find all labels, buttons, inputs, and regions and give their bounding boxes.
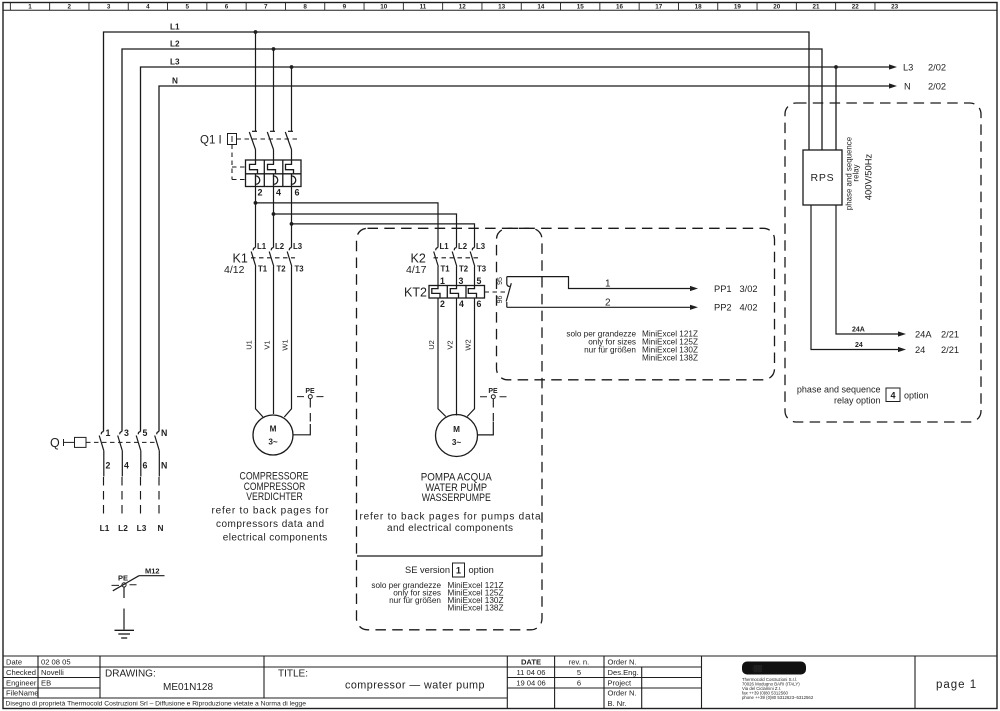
svg-text:rev. n.: rev. n.	[569, 658, 590, 667]
switch Q link dashed	[86, 441, 158, 443]
switch Q pole 1	[99, 432, 104, 517]
svg-text:T1: T1	[441, 265, 451, 274]
svg-text:4: 4	[146, 4, 150, 11]
wire L3 bus	[141, 64, 898, 431]
svg-text:6: 6	[577, 679, 581, 688]
svg-text:PE: PE	[488, 388, 498, 395]
svg-text:nur für größen: nur für größen	[389, 596, 441, 605]
svg-text:11: 11	[420, 4, 427, 11]
contactor K2 pole 3	[470, 248, 475, 267]
node 96 label	[497, 296, 504, 304]
svg-text:1: 1	[440, 276, 445, 286]
svg-text:B. Nr.: B. Nr.	[608, 699, 627, 708]
wire drop L2 to Q1	[272, 47, 276, 131]
title block drawing cell	[105, 669, 213, 694]
contactor K1 pole 2	[269, 248, 274, 267]
svg-text:Order N.: Order N.	[608, 689, 637, 698]
svg-text:T2: T2	[277, 265, 287, 274]
title block property note	[6, 700, 307, 707]
svg-text:20: 20	[773, 4, 781, 11]
svg-text:L2: L2	[458, 242, 468, 251]
switch Q terminal labels top	[106, 428, 168, 438]
svg-text:relay option: relay option	[834, 396, 881, 406]
wire drop L1 to Q1	[254, 30, 258, 131]
wire Q1 pole 3 to K1	[290, 187, 294, 248]
svg-text:PP1: PP1	[714, 284, 732, 294]
contactor K1 pole 3	[287, 248, 292, 267]
svg-text:L1: L1	[100, 523, 110, 533]
svg-text:W1: W1	[281, 339, 290, 350]
svg-text:N: N	[158, 523, 164, 533]
text phase and sequence relay option	[797, 385, 929, 406]
pump box divider line	[357, 555, 542, 557]
svg-text:DATE: DATE	[521, 658, 541, 667]
breaker Q1 pole 3 contact	[285, 131, 293, 160]
wire U1	[256, 267, 264, 418]
thermal relay KT2 pole 1 element	[432, 286, 440, 299]
svg-text:3/02: 3/02	[740, 284, 758, 294]
svg-text:02 08 05: 02 08 05	[41, 658, 71, 667]
svg-text:Project: Project	[608, 679, 633, 688]
title block title cell	[278, 669, 485, 692]
wire 1 to PP1	[507, 277, 698, 292]
svg-text:23: 23	[891, 4, 899, 11]
wire drop L3 to Q1	[290, 65, 294, 131]
svg-text:L2: L2	[118, 523, 128, 533]
thermal relay KT2 pole 3 element	[468, 286, 476, 299]
svg-text:3~: 3~	[452, 438, 462, 447]
svg-text:RPS: RPS	[811, 172, 835, 184]
svg-text:6: 6	[225, 4, 229, 11]
switch Q label	[50, 436, 60, 450]
svg-text:compressor — water pump: compressor — water pump	[345, 680, 485, 692]
svg-text:3: 3	[124, 428, 129, 438]
thermal relay KT2 terminal labels 1 3 5	[440, 276, 482, 286]
switch Q pole 4	[155, 432, 160, 517]
svg-text:17: 17	[655, 4, 663, 11]
svg-text:T1: T1	[258, 265, 268, 274]
wire U2	[438, 298, 446, 417]
svg-text:5: 5	[143, 428, 148, 438]
svg-text:L1: L1	[170, 23, 180, 32]
text 400V 50Hz vertical	[863, 153, 874, 200]
svg-text:T3: T3	[477, 265, 487, 274]
node L3 2/02 reference	[903, 63, 946, 73]
svg-text:4: 4	[276, 188, 281, 198]
wire branch to K2 pole 1	[256, 203, 439, 248]
svg-text:Q: Q	[50, 436, 60, 450]
svg-text:4: 4	[890, 391, 895, 401]
svg-text:95: 95	[497, 277, 504, 285]
svg-text:2: 2	[258, 188, 263, 198]
svg-text:6: 6	[295, 188, 300, 198]
node N 2/02 reference	[904, 82, 946, 92]
text phase and sequence relay vertical	[845, 136, 861, 210]
svg-text:electrical components: electrical components	[223, 532, 328, 543]
svg-text:KT2: KT2	[404, 286, 427, 300]
svg-text:page 1: page 1	[936, 679, 977, 691]
PE terminal compressor	[297, 388, 324, 424]
switch Q handle	[64, 437, 87, 447]
svg-text:2: 2	[68, 4, 72, 11]
wire L3 drop to RPS	[834, 65, 838, 150]
svg-text:22: 22	[852, 4, 860, 11]
contactor K2 link dashed	[434, 257, 479, 259]
thermal relay KT2 label	[404, 286, 427, 300]
svg-text:10: 10	[380, 4, 388, 11]
wire L1 bus	[104, 32, 810, 432]
node wire 2 label	[605, 297, 611, 308]
svg-text:phone ++39 (0)80 5312623–53125: phone ++39 (0)80 5312623–5312562	[742, 695, 814, 700]
overload Q1 pole 1 thermal and magnetic elements	[250, 160, 260, 187]
node wire 1 label	[605, 279, 611, 290]
svg-text:V2: V2	[446, 340, 455, 349]
svg-text:24A: 24A	[852, 327, 865, 334]
node V2 label	[446, 340, 455, 349]
overload Q1 pole 2 thermal and magnetic elements	[268, 160, 278, 187]
svg-text:compressors data and: compressors data and	[216, 519, 324, 530]
node supply L1 L2 L3 N labels	[100, 523, 164, 533]
ground symbol	[115, 630, 135, 638]
svg-text:option: option	[469, 565, 494, 575]
svg-text:4/12: 4/12	[224, 264, 245, 276]
svg-text:15: 15	[577, 4, 585, 11]
contactor K2 label	[406, 252, 427, 277]
page number	[936, 679, 977, 691]
svg-text:Disegno di proprietà Thermocol: Disegno di proprietà Thermocold Costruzi…	[6, 700, 307, 707]
node 24A 2/21 reference	[915, 330, 959, 340]
wire Q1 pole 1 to K1	[254, 187, 258, 248]
svg-text:Checked: Checked	[6, 668, 36, 677]
svg-text:4: 4	[124, 461, 129, 471]
wire W1	[284, 267, 291, 418]
node V1 label	[263, 340, 272, 349]
wire L2 bus	[122, 49, 822, 432]
svg-text:L2: L2	[170, 40, 180, 49]
wire motor M1 PE	[293, 424, 310, 435]
svg-text:Engineer: Engineer	[6, 679, 37, 688]
svg-text:T2: T2	[459, 265, 469, 274]
node 95 label	[497, 277, 504, 285]
RPS option dashed box	[785, 103, 981, 422]
motor M1 compressor	[253, 415, 293, 455]
svg-text:19: 19	[734, 4, 742, 11]
node PP1 3/02 reference	[714, 284, 758, 294]
svg-text:3~: 3~	[268, 438, 278, 447]
svg-text:6: 6	[477, 299, 482, 309]
contactor K1 pole 1	[251, 248, 256, 267]
svg-text:L2: L2	[275, 242, 285, 251]
svg-text:TITLE:: TITLE:	[278, 669, 308, 680]
svg-text:400V/50Hz: 400V/50Hz	[863, 153, 874, 200]
svg-text:8: 8	[303, 4, 307, 11]
pump option dashed box	[357, 228, 543, 630]
switch Q pole 3	[136, 432, 141, 517]
logo Thermocold	[742, 662, 806, 675]
contactor K1 link dashed	[251, 257, 295, 259]
svg-text:12: 12	[459, 4, 467, 11]
breaker Q1 pole 2 contact	[267, 131, 275, 160]
switch Q pole 2	[118, 432, 123, 517]
breaker Q1 actuator box	[228, 134, 237, 145]
svg-text:2: 2	[440, 299, 445, 309]
svg-text:ME01N128: ME01N128	[163, 682, 213, 693]
ruler scale strip	[10, 3, 898, 11]
text note MiniExcel sizes	[566, 330, 698, 363]
svg-text:11 04 06: 11 04 06	[517, 668, 546, 677]
svg-text:MiniExcel 138Z: MiniExcel 138Z	[642, 354, 698, 363]
breaker Q1 pole 1 contact	[249, 131, 257, 160]
svg-text:L3: L3	[137, 523, 147, 533]
breaker Q1 label	[200, 135, 222, 147]
aux contact KT2 95-96	[506, 277, 511, 308]
svg-text:N: N	[161, 461, 167, 471]
svg-text:14: 14	[537, 4, 545, 11]
relay RPS box	[803, 150, 842, 205]
text pump title	[421, 472, 492, 504]
svg-text:N: N	[161, 428, 167, 438]
svg-text:5: 5	[577, 668, 581, 677]
svg-text:2/02: 2/02	[928, 63, 946, 73]
svg-text:relay: relay	[852, 164, 861, 181]
svg-text:1: 1	[456, 566, 461, 576]
text compressor title	[240, 471, 309, 503]
svg-text:7: 7	[264, 4, 268, 11]
contactor K1 label	[224, 252, 248, 277]
svg-text:13: 13	[498, 4, 506, 11]
thermal relay KT2 aux link dashed	[485, 291, 506, 293]
svg-text:and electrical components: and electrical components	[387, 523, 513, 534]
title block left table text	[6, 658, 71, 698]
node PP2 4/02 reference	[714, 303, 758, 313]
svg-text:DRAWING:: DRAWING:	[105, 669, 156, 680]
svg-text:M12: M12	[145, 567, 160, 576]
thermal relay KT2 wires in	[437, 267, 439, 286]
motor M2 pump	[436, 415, 478, 457]
svg-text:24: 24	[915, 345, 925, 355]
svg-text:19 04 06: 19 04 06	[516, 679, 546, 688]
text SE version option	[405, 563, 494, 577]
node U2 label	[427, 340, 436, 350]
thermal relay KT2 pole 2 element	[450, 286, 458, 299]
svg-text:L1: L1	[257, 242, 267, 251]
contactor K2 pole 2	[452, 248, 457, 267]
MiniExcel note dashed box	[497, 228, 775, 379]
overload block Q1 outline	[246, 160, 302, 187]
svg-text:W2: W2	[464, 339, 473, 350]
node L1 label	[170, 23, 180, 32]
PE M12 earth terminal	[112, 567, 165, 591]
svg-text:24: 24	[855, 342, 863, 349]
wire 2 to PP2	[507, 305, 698, 310]
svg-text:U1: U1	[245, 340, 254, 350]
svg-text:Order N.: Order N.	[608, 658, 637, 667]
svg-text:1: 1	[605, 279, 611, 290]
svg-text:refer to back pages for: refer to back pages for	[212, 505, 330, 516]
svg-text:L3: L3	[476, 242, 486, 251]
contactor K2 pole 1	[434, 248, 439, 267]
wire RPS 24 out	[811, 205, 906, 352]
svg-text:Des.Eng.: Des.Eng.	[608, 668, 639, 677]
svg-text:3: 3	[107, 4, 111, 11]
node L3 label	[170, 58, 180, 67]
svg-text:V1: V1	[263, 340, 272, 349]
svg-text:L3: L3	[170, 58, 180, 67]
svg-text:U2: U2	[427, 340, 436, 350]
wire branch to K2 pole 2	[274, 214, 457, 248]
node L2 label	[170, 40, 180, 49]
wire RPS 24A out	[836, 205, 906, 337]
svg-text:M: M	[270, 425, 277, 434]
svg-text:9: 9	[343, 4, 347, 11]
svg-text:SE version: SE version	[405, 565, 450, 575]
node 24 2/21 reference	[915, 345, 959, 355]
svg-text:N: N	[172, 77, 178, 86]
title block grid	[3, 656, 997, 709]
svg-text:L3: L3	[903, 63, 913, 73]
switch Q terminal labels bottom	[106, 461, 168, 471]
overload Q1 pole 3 thermal and magnetic elements	[286, 160, 296, 187]
svg-text:phase and sequence: phase and sequence	[797, 385, 881, 395]
svg-text:4/02: 4/02	[740, 303, 758, 313]
svg-text:24A: 24A	[915, 330, 932, 340]
thermal relay KT2 terminal labels 2 4 6	[440, 299, 482, 309]
text pump MiniExcel sizes	[371, 581, 503, 613]
contactor K2 terminal labels	[440, 242, 487, 274]
wire V1	[273, 267, 275, 415]
svg-text:L3: L3	[293, 242, 303, 251]
svg-text:3: 3	[459, 276, 464, 286]
svg-text:PE: PE	[305, 388, 315, 395]
svg-text:L1: L1	[440, 242, 450, 251]
svg-text:96: 96	[497, 296, 504, 304]
node U1 label	[245, 340, 254, 350]
breaker Q1 trip link dashed	[232, 145, 246, 180]
svg-text:option: option	[904, 391, 929, 401]
svg-text:2: 2	[106, 461, 111, 471]
node 24A wire label	[852, 327, 865, 334]
svg-text:6: 6	[143, 461, 148, 471]
wire earth dashed	[123, 587, 125, 630]
svg-text:EB: EB	[41, 679, 51, 688]
contactor K1 terminal labels	[257, 242, 304, 274]
svg-text:WASSERPUMPE: WASSERPUMPE	[422, 492, 491, 504]
wire branch to K2 pole 3	[292, 224, 475, 248]
svg-text:2/21: 2/21	[941, 345, 959, 355]
svg-text:2: 2	[605, 297, 611, 308]
svg-text:I██: I██	[752, 665, 763, 673]
wire W2	[467, 298, 474, 417]
svg-text:1: 1	[106, 428, 111, 438]
svg-text:VERDICHTER: VERDICHTER	[246, 491, 302, 503]
text pump note	[360, 512, 541, 534]
node W1 label	[281, 339, 290, 350]
svg-text:Q1 I: Q1 I	[200, 135, 222, 147]
node N label	[172, 77, 178, 86]
svg-text:2/02: 2/02	[928, 82, 946, 92]
svg-text:18: 18	[695, 4, 703, 11]
svg-text:5: 5	[185, 4, 189, 11]
text compressor note	[212, 505, 330, 543]
svg-text:16: 16	[616, 4, 624, 11]
thermal relay KT2 box	[429, 286, 485, 299]
wire N bus	[159, 83, 897, 431]
svg-text:MiniExcel 138Z: MiniExcel 138Z	[448, 604, 504, 613]
svg-text:Novelli: Novelli	[41, 668, 64, 677]
breaker Q1 mechanical link dashed	[237, 138, 299, 140]
wire V2	[456, 298, 458, 416]
svg-text:T3: T3	[295, 265, 305, 274]
svg-text:PP2: PP2	[714, 303, 732, 313]
svg-text:4/17: 4/17	[406, 264, 427, 276]
logo address text	[742, 677, 814, 700]
wire Q1 pole 2 to K1	[272, 187, 276, 248]
overload Q1 terminal labels 2 4 6	[258, 188, 300, 198]
node 24 wire label	[855, 342, 863, 349]
title block revision table text	[516, 658, 589, 688]
svg-text:nur für größen: nur für größen	[584, 346, 636, 355]
wire motor M2 PE	[477, 422, 493, 435]
svg-text:4: 4	[459, 299, 464, 309]
svg-text:1: 1	[28, 4, 32, 11]
svg-text:5: 5	[477, 276, 482, 286]
svg-text:refer to back pages for pumps: refer to back pages for pumps data	[360, 512, 541, 523]
svg-text:FileName: FileName	[6, 689, 39, 698]
svg-text:21: 21	[812, 4, 820, 11]
svg-text:2/21: 2/21	[941, 330, 959, 340]
node W2 label	[464, 339, 473, 350]
PE terminal pump	[480, 388, 507, 422]
svg-text:PE: PE	[118, 574, 128, 583]
svg-text:M: M	[453, 425, 460, 434]
svg-text:Date: Date	[6, 658, 22, 667]
svg-text:N: N	[904, 82, 911, 92]
